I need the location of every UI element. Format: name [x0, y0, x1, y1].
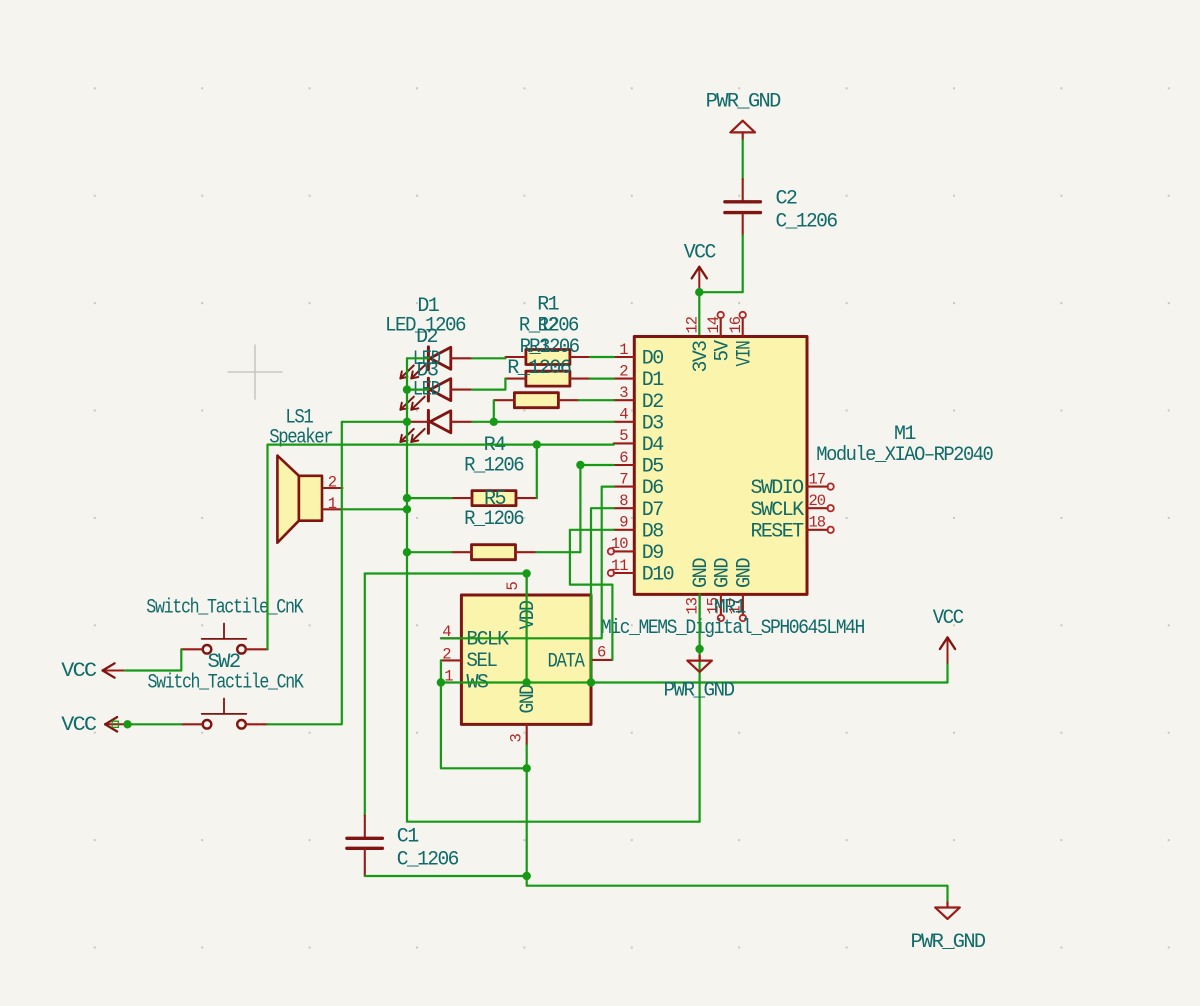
wire D0 row LED D1 to R1 — [407, 357, 428, 359]
svg-text:16: 16 — [727, 316, 745, 333]
svg-text:8: 8 — [619, 492, 628, 510]
junction C1 GND — [523, 872, 531, 880]
svg-text:R1: R1 — [537, 294, 559, 317]
svg-text:Switch_Tactile_CnK: Switch_Tactile_CnK — [146, 596, 303, 619]
LED D3 — [400, 360, 472, 442]
microphone MR1 pins — [441, 574, 613, 745]
svg-text:SWCLK: SWCLK — [750, 499, 804, 522]
wire R2 to pin 2 — [590, 378, 614, 380]
power flag PWR_GND (top) — [706, 91, 781, 141]
resistor R2 — [505, 315, 590, 386]
svg-text:14: 14 — [705, 316, 723, 333]
svg-text:SWDIO: SWDIO — [750, 477, 803, 500]
svg-text:M1: M1 — [894, 423, 916, 446]
junction R3 D3 row — [490, 418, 498, 426]
wire pin 9 to mic DATA — [570, 530, 614, 660]
svg-text:DATA: DATA — [548, 651, 585, 674]
svg-text:VDD: VDD — [517, 601, 540, 630]
svg-text:2: 2 — [619, 362, 628, 380]
junction rail R4 — [403, 548, 411, 556]
wire R5 left to rail — [407, 497, 452, 499]
svg-text:BCLK: BCLK — [466, 629, 509, 652]
svg-text:R2: R2 — [538, 315, 559, 338]
wire R1 to pin 1 — [590, 356, 614, 358]
wire R4 left to rail — [407, 551, 451, 553]
svg-text:C1: C1 — [397, 826, 419, 849]
svg-text:C_1206: C_1206 — [397, 849, 459, 872]
module M1 right pins 17,20,18 (SWDIO,SWCLK,RESET) — [750, 470, 833, 543]
wire pin 8 to WS row — [591, 508, 614, 682]
wire SW2 to VCC — [128, 723, 182, 725]
resistor R1 — [506, 294, 591, 365]
wire pin 7 to mic BCLK — [441, 487, 614, 639]
svg-text:GND: GND — [690, 558, 713, 588]
svg-text:R_1206: R_1206 — [507, 357, 571, 380]
junction WS VDD — [522, 678, 530, 686]
capacitor C1 — [347, 816, 458, 876]
svg-text:D4: D4 — [642, 434, 663, 457]
wire mic SEL jog — [440, 660, 442, 682]
svg-text:20: 20 — [809, 492, 826, 510]
resistor R3 — [494, 336, 578, 408]
wire D2 row to R2 — [407, 389, 428, 391]
junction rail D2 — [403, 385, 411, 393]
junction WS SEL — [437, 678, 445, 686]
svg-text:PWR_GND: PWR_GND — [911, 931, 986, 954]
svg-text:4: 4 — [619, 406, 628, 424]
svg-text:9: 9 — [619, 514, 628, 532]
svg-text:PWR_GND: PWR_GND — [664, 680, 735, 703]
wire mic GND down — [527, 745, 948, 902]
capacitor C2 — [725, 179, 837, 235]
junction module GND — [695, 645, 703, 653]
wire speaker pin1 to rail — [343, 508, 408, 510]
svg-text:1: 1 — [619, 341, 628, 359]
wire SW1 to VCC — [125, 649, 181, 670]
svg-text:5V: 5V — [711, 340, 734, 362]
svg-text:PWR_GND: PWR_GND — [706, 91, 781, 114]
crosshair origin marker — [228, 345, 282, 399]
junction D5 row — [576, 461, 584, 469]
wire C1 bottom to GND net — [365, 875, 527, 877]
svg-text:D9: D9 — [642, 542, 663, 565]
wire WS junction down — [441, 683, 527, 769]
module M1 bottom pins 13,15,17 (GND,GND,GND) — [683, 558, 756, 621]
resistor R5 — [452, 488, 537, 531]
svg-text:D1: D1 — [642, 369, 664, 392]
junction mic GND — [523, 764, 531, 772]
wire R5 to D4 row — [536, 445, 538, 499]
svg-text:D5: D5 — [642, 456, 663, 479]
wire D5 row to pin 6 — [580, 464, 613, 466]
svg-text:RESET: RESET — [750, 520, 804, 543]
junction WS pin8 — [587, 678, 595, 686]
svg-text:5: 5 — [504, 582, 522, 591]
svg-text:GND: GND — [734, 558, 757, 588]
svg-text:D2: D2 — [642, 391, 663, 414]
switch SW1 Switch_Tactile_CnK — [146, 596, 303, 653]
wire WS row to VCC — [441, 663, 948, 683]
microphone MR1 Mic_MEMS_Digital_SPH0645LM4H body — [461, 595, 864, 724]
wire LED cathode rail — [407, 358, 700, 821]
module M1 Module_XIAO-RP2040 body — [634, 337, 993, 595]
svg-text:1: 1 — [328, 495, 337, 513]
junction rail speaker — [403, 505, 411, 513]
junction VDD — [522, 569, 530, 577]
svg-text:17: 17 — [809, 470, 826, 488]
svg-text:C2: C2 — [776, 188, 797, 211]
svg-text:VCC: VCC — [933, 607, 965, 630]
svg-text:D2: D2 — [416, 326, 437, 349]
svg-text:5: 5 — [619, 427, 628, 445]
wire D3 row — [268, 422, 408, 725]
power flag VCC (top) — [684, 242, 717, 293]
wire D4 row switch SW1 to pin 5 — [268, 445, 614, 650]
svg-text:3: 3 — [508, 734, 526, 743]
svg-text:D6: D6 — [642, 477, 663, 500]
svg-text:VCC: VCC — [684, 242, 717, 265]
svg-text:SEL: SEL — [466, 650, 497, 673]
module M1 top pins 12,14,16 (3V3,5V,VIN) — [684, 312, 757, 373]
wire VDD rail from C1 — [365, 574, 527, 683]
wire C1 top — [364, 574, 366, 816]
power flag PWR_GND (module GND) — [664, 656, 735, 703]
junction SW2 VCC — [123, 720, 131, 728]
junction R5 D4 row — [533, 440, 541, 448]
svg-text:Module_XIAO–RP2040: Module_XIAO–RP2040 — [816, 444, 993, 467]
LED D2 — [400, 326, 472, 410]
junction rail R5 — [403, 494, 411, 502]
svg-text:GND: GND — [712, 558, 735, 588]
svg-text:6: 6 — [597, 644, 606, 662]
power flag VCC (switch SW2) — [61, 714, 127, 737]
junction rail D3 — [403, 418, 411, 426]
svg-text:D3: D3 — [642, 412, 663, 435]
svg-text:Mic_MEMS_Digital_SPH0645LM4H: Mic_MEMS_Digital_SPH0645LM4H — [601, 617, 865, 640]
svg-text:D0: D0 — [642, 348, 663, 371]
svg-text:R_1206: R_1206 — [464, 454, 524, 477]
svg-text:Speaker: Speaker — [269, 427, 333, 450]
svg-text:3: 3 — [619, 384, 628, 402]
svg-text:18: 18 — [809, 514, 826, 532]
svg-text:D7: D7 — [642, 499, 663, 522]
wire C2 to VCC node — [699, 236, 742, 293]
svg-text:6: 6 — [619, 449, 628, 467]
LED D1 — [385, 295, 472, 378]
power flag VCC (switch SW1) — [61, 660, 125, 683]
svg-text:12: 12 — [684, 316, 702, 333]
wire R4 right to D5 row — [536, 465, 580, 552]
svg-text:2: 2 — [442, 645, 451, 663]
svg-text:R3: R3 — [529, 336, 550, 359]
svg-text:VCC: VCC — [61, 660, 97, 683]
speaker LS1 — [269, 407, 342, 543]
junction VCC/C2/3V3 — [695, 288, 703, 296]
svg-text:C_1206: C_1206 — [776, 211, 838, 234]
wire R3 to pin 3 — [579, 399, 614, 401]
power flag VCC (right) — [933, 607, 965, 663]
wire R3 left to D3 row — [493, 400, 495, 422]
wire PWR_GND flag to C2 — [742, 140, 744, 179]
svg-text:D8: D8 — [642, 520, 663, 543]
svg-text:VCC: VCC — [61, 714, 97, 737]
resistor R4 — [451, 434, 536, 560]
svg-text:2: 2 — [328, 473, 337, 491]
svg-text:D10: D10 — [642, 564, 674, 587]
module M1 left pins 1-11 (D0-D10) — [608, 341, 674, 587]
svg-text:GND: GND — [517, 685, 540, 714]
svg-text:VIN: VIN — [733, 341, 756, 366]
svg-text:Switch_Tactile_CnK: Switch_Tactile_CnK — [148, 671, 304, 694]
power flag PWR_GND (bottom right) — [911, 903, 986, 955]
svg-text:3V3: 3V3 — [690, 341, 713, 373]
switch SW2 Switch_Tactile_CnK — [148, 651, 304, 728]
wire VCC node to pin 12 — [698, 292, 700, 336]
svg-text:7: 7 — [619, 470, 628, 488]
svg-text:R_1206: R_1206 — [464, 508, 524, 531]
